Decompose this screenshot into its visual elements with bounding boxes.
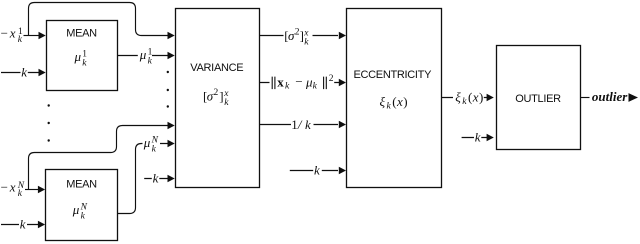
input label -x_k^N (1, 180, 25, 199)
wire MEAN N output mu_k^N up into VARIANCE (118, 144, 168, 214)
svg-text:1: 1 (291, 117, 298, 132)
wire x_k^N into MEAN N (25, 189, 39, 191)
wire feedback x^N into VARIANCE (29, 126, 168, 190)
block MEAN N (46, 170, 118, 241)
svg-text:ξ: ξ (455, 90, 461, 105)
svg-text:x: x (277, 74, 284, 89)
arrowhead norm into ECCENTRICITY (339, 79, 346, 86)
block MEAN 1 (47, 21, 118, 91)
arrowhead into MEAN N (k input) (38, 221, 45, 228)
svg-text:μ: μ (139, 47, 147, 62)
svg-text:k: k (153, 171, 159, 186)
arrowhead into MEAN 1 (k input) (39, 69, 46, 76)
svg-text:μ: μ (72, 202, 80, 217)
svg-text:μ: μ (74, 49, 82, 64)
svg-text:−: − (1, 180, 8, 195)
svg-text:x: x (472, 90, 479, 105)
wire k into ECCENTRICITY (290, 170, 338, 172)
label xi_k(x) inside ECCENTRICITY (380, 94, 408, 112)
arrowhead k into OUTLIER (487, 134, 494, 141)
wire MEAN1 output mu_k^1 to VARIANCE (118, 55, 168, 57)
label mu_k^1 on wire (139, 47, 153, 67)
svg-text:OUTLIER: OUTLIER (515, 93, 561, 105)
label xi_k(x) on wire (455, 90, 483, 108)
arrowhead 1/k into ECCENTRICITY (339, 121, 346, 128)
wire VARIANCE output 1/k to ECCENTRICITY (259, 124, 338, 126)
svg-text:x: x (9, 26, 16, 41)
arrowhead k into VARIANCE (168, 175, 175, 182)
arrowhead xi into OUTLIER (487, 94, 494, 101)
svg-text:MEAN: MEAN (66, 28, 97, 40)
arrowhead k into ECCENTRICITY (339, 167, 346, 174)
svg-text:outlier: outlier (592, 89, 628, 104)
svg-text:2: 2 (329, 74, 334, 84)
block OUTLIER (497, 46, 581, 150)
label mu_k^1 inside MEAN 1 (74, 49, 88, 69)
svg-text:x: x (396, 94, 403, 109)
svg-text:(: ( (392, 94, 396, 109)
svg-text:2: 2 (214, 88, 219, 98)
svg-text:): ) (479, 90, 483, 105)
wire feedback x^1 over MEAN 1 into VARIANCE (29, 3, 168, 36)
block VARIANCE (176, 9, 260, 188)
wire -k into OUTLIER (462, 137, 487, 139)
wire -k into VARIANCE (144, 178, 167, 180)
svg-text:ξ: ξ (380, 94, 386, 109)
dots on VARIANCE inputs (167, 71, 169, 73)
svg-text:k: k (20, 217, 26, 232)
wire -k into MEAN 1 (1, 72, 39, 74)
svg-text:−: − (295, 74, 302, 89)
svg-text:k: k (475, 130, 481, 145)
svg-text:VARIANCE: VARIANCE (190, 62, 243, 74)
svg-text:−: − (1, 26, 8, 41)
svg-text:μ: μ (143, 135, 151, 150)
wire x_k^1 into MEAN 1 (24, 35, 40, 37)
wire OUTLIER output (581, 97, 590, 99)
svg-text:k: k (305, 117, 311, 132)
arrowhead into MEAN 1 (x input) (39, 32, 46, 39)
svg-text:]: ] (219, 88, 223, 103)
wire VARIANCE output [sigma2]_k^x to ECCENTRICITY (259, 35, 338, 37)
svg-text:ECCENTRICITY: ECCENTRICITY (353, 69, 432, 81)
label [sigma^2]_k^x on wire (284, 28, 309, 48)
label ||x_k - mu_k||^2 on wire (272, 74, 334, 92)
label mu_k^N inside MEAN N (72, 202, 88, 222)
input label -x_k^1 (1, 26, 23, 45)
label [sigma^2]_k^x inside VARIANCE (203, 88, 229, 108)
arrowhead mu_k^N into VARIANCE (168, 140, 175, 147)
svg-text:): ) (403, 94, 407, 109)
wire -k into MEAN N (1, 224, 39, 226)
wire ECCENTRICITY output xi to OUTLIER (442, 97, 488, 99)
block ECCENTRICITY (347, 9, 442, 188)
svg-text:(: ( (468, 90, 472, 105)
arrowhead into MEAN N (x input) (38, 186, 45, 193)
svg-text:k: k (21, 65, 27, 80)
arrowhead output outlier (629, 93, 639, 102)
svg-text:k: k (314, 163, 320, 178)
wire VARIANCE output norm to ECCENTRICITY (259, 82, 339, 84)
arrowhead mu_k^1 into VARIANCE (168, 52, 175, 59)
svg-text:MEAN: MEAN (66, 179, 97, 191)
label mu_k^N on wire (143, 135, 159, 155)
dots between MEAN blocks (48, 104, 50, 106)
svg-text:]: ] (300, 28, 304, 43)
svg-text:x: x (9, 180, 16, 195)
arrowhead x^1 into VARIANCE (168, 32, 175, 39)
arrowhead sigma2 into ECCENTRICITY (339, 32, 346, 39)
arrowhead x^N into VARIANCE (168, 122, 175, 129)
